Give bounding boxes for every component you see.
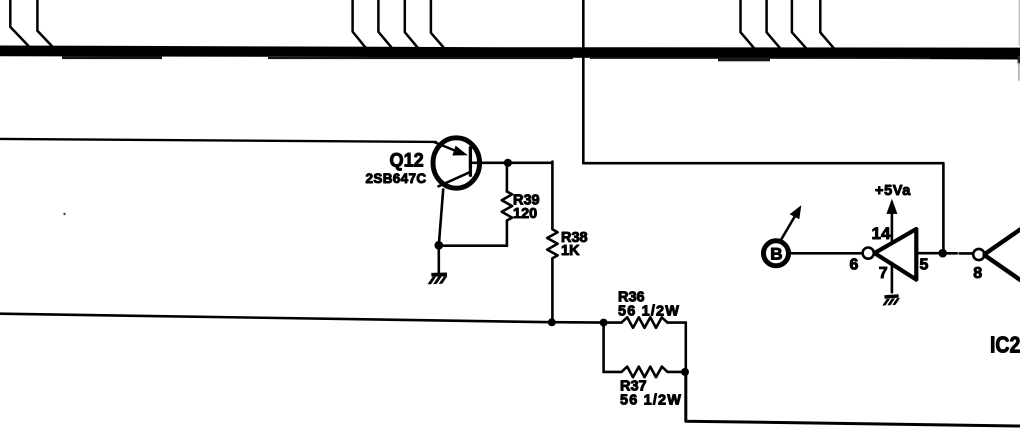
svg-text:56 1/2W: 56 1/2W [620,393,682,409]
bus bar smudge 4 [590,57,930,59]
page edge faint stub [1018,64,1020,81]
wire C1 top-right [741,0,755,48]
junction node R36-R37 left [600,319,608,327]
wire from R36/R37 down and right to bottom edge [686,372,1020,426]
wire from collector junction to R39 bottom [439,244,507,247]
lower bus wire from left edge [0,314,604,323]
resistor R37 [604,367,686,378]
svg-text:1K: 1K [561,243,580,259]
bus bar smudge 1 [62,56,162,59]
resistor R39 [502,163,512,246]
svg-text:7: 7 [879,265,888,282]
wire A2 top-left [37,0,52,46]
svg-text:120: 120 [513,206,537,222]
wire C2 top-right [767,0,780,48]
+5Va arrowhead [886,199,897,214]
node B arrow line [782,214,797,240]
transistor Q12 base bar [469,148,472,176]
wire A1 top-left [10,0,28,46]
wire center vertical from top bus down then right to gate output [583,0,943,253]
junction node R38 / lower bus [548,318,556,326]
inverter IC2a output bubble pin 6 [863,248,874,259]
speck left middle [63,213,65,215]
inverter IC2a triangle [875,229,917,280]
wire B4 top-middle [431,0,444,48]
wire junction to IC2b bubble [947,252,973,255]
svg-text:Q12: Q12 [390,149,424,171]
wire emitter lead of Q12 from left edge [0,139,436,142]
wire B1 top-middle [353,0,366,47]
wire C3 top-right [792,0,806,48]
wire collector junction down to ground [437,245,440,272]
svg-text:6: 6 [850,256,859,273]
transistor Q12 collector diagonal [439,172,470,186]
node B circle [764,241,789,266]
page edge faint line top right [1018,0,1020,45]
resistor R36 [604,317,686,328]
node B arrowhead [790,205,802,219]
junction node collector/ground [434,241,443,250]
wire node B to gate output bubble [791,252,862,255]
transistor Q12 emitter arrowhead [452,146,467,156]
bus bar smudge 3 [718,58,770,61]
wire B2 top-middle [378,0,391,47]
svg-text:8: 8 [973,265,982,282]
inverter IC2b output bubble pin 8 [973,249,984,260]
wire C4 top-right [820,0,834,48]
pin 7 ground lead [891,263,894,292]
inverter IC2b upper edge [985,230,1020,254]
svg-text:+5Va: +5Va [875,183,911,199]
ground under pin 7 [882,294,900,305]
bus bar (thick horizontal power bus) [0,46,1020,60]
wire R37 left side down from junction [602,323,605,372]
junction node at Q12 base / R39 / R38 [504,159,512,167]
transistor Q12 collector lead [439,190,443,246]
pin 14 supply lead [891,214,894,244]
svg-text:14: 14 [872,224,891,243]
inverter IC2b lower edge [985,255,1020,280]
ground under Q12 [428,273,448,285]
wire B3 top-middle [405,0,418,47]
wire gate output pin 5 to junction [916,252,938,255]
svg-text:IC2: IC2 [990,332,1020,358]
svg-text:2SB647C: 2SB647C [366,171,427,186]
svg-text:5: 5 [920,256,929,273]
resistor R38 [547,162,557,323]
svg-text:B: B [770,245,782,264]
transistor Q12 emitter diagonal [435,142,460,152]
junction node R36-R37 right [681,368,689,376]
bus bar smudge 2 [268,57,573,59]
svg-text:56 1/2W: 56 1/2W [618,304,680,320]
page edge stub below bus bar [1018,57,1020,64]
transistor Q12 circle [433,138,480,188]
wire base lead of Q12 to the right [470,162,552,165]
junction node pin5/center wire [938,249,947,258]
wire R36 right side down to R37 [684,323,687,372]
